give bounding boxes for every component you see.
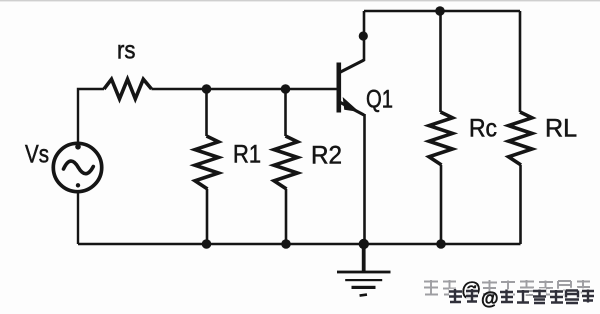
wire RL top bbox=[519, 11, 522, 112]
voltage source Vs bbox=[53, 143, 101, 191]
wire emitter down bbox=[363, 114, 366, 244]
wire rs to base bbox=[152, 88, 338, 90]
svg-text:R1: R1 bbox=[233, 141, 261, 169]
wire bottom rail bbox=[78, 243, 521, 245]
svg-text:@: @ bbox=[481, 289, 499, 309]
wire Vs top to rs bbox=[78, 89, 104, 144]
wire Vs bottom bbox=[77, 191, 79, 244]
resistor Rc bbox=[429, 112, 453, 165]
node bottom Rc junction bbox=[436, 239, 446, 249]
wire R1 top bbox=[205, 89, 208, 136]
node bottom R1 junction bbox=[202, 239, 212, 249]
svg-text:R2: R2 bbox=[311, 142, 342, 170]
node bottom emitter junction bbox=[359, 239, 369, 249]
resistor rs bbox=[104, 79, 152, 99]
watermark zhihu line bbox=[424, 280, 590, 302]
svg-text:Vs: Vs bbox=[25, 141, 49, 169]
node top rail-Rc junction bbox=[435, 6, 445, 16]
watermark toutiao line bbox=[449, 289, 594, 309]
wire R2 bottom bbox=[285, 189, 288, 244]
svg-text:rs: rs bbox=[117, 37, 136, 65]
wire RL bottom bbox=[519, 165, 522, 244]
wire R2 top bbox=[284, 89, 287, 136]
svg-text:Rc: Rc bbox=[469, 115, 497, 143]
wire R1 bottom bbox=[206, 189, 209, 244]
wire collector up bbox=[363, 11, 366, 61]
resistor R2 bbox=[274, 136, 298, 189]
ground bbox=[337, 244, 391, 297]
node collector dot bbox=[359, 31, 368, 40]
wire Rc top bbox=[439, 11, 442, 112]
node base-R1 junction bbox=[202, 84, 212, 94]
svg-text:Q1: Q1 bbox=[366, 86, 393, 114]
resistor RL bbox=[509, 112, 533, 165]
resistor R1 bbox=[195, 136, 219, 189]
node bottom R2 junction bbox=[281, 239, 291, 249]
transistor Q1 bbox=[339, 60, 364, 115]
node base-R2 junction bbox=[281, 84, 291, 94]
svg-text:RL: RL bbox=[545, 115, 577, 143]
wire top rail bbox=[364, 10, 520, 13]
wire Rc bottom bbox=[440, 165, 443, 244]
